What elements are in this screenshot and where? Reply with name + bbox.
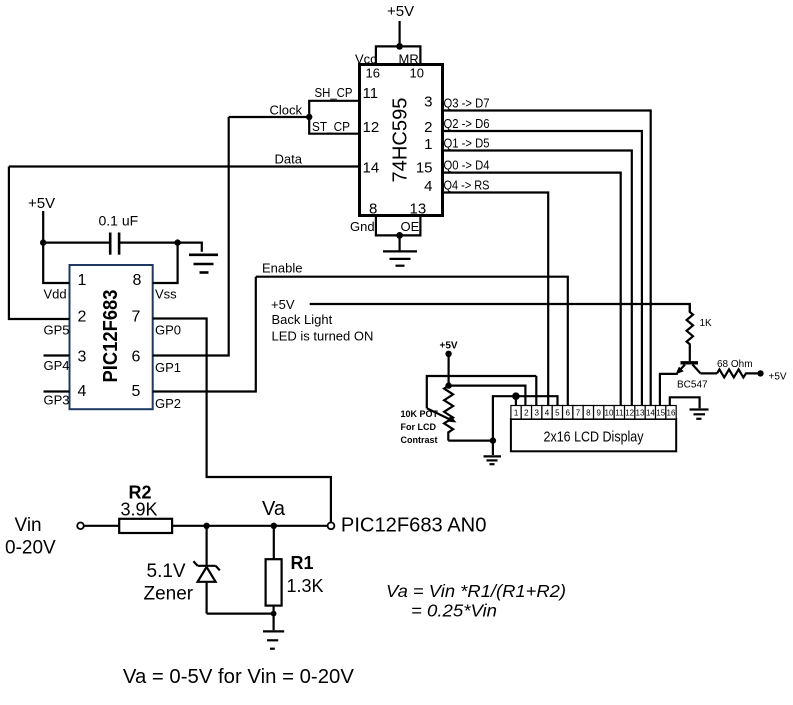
svg-text:2: 2 — [524, 409, 529, 418]
svg-text:Q1 -> D5: Q1 -> D5 — [444, 136, 490, 151]
svg-text:LED is turned ON: LED is turned ON — [272, 329, 374, 344]
svg-text:For LCD: For LCD — [401, 422, 437, 432]
svg-text:MR: MR — [399, 52, 419, 67]
svg-text:Q4 -> RS: Q4 -> RS — [444, 178, 490, 193]
wire pot bottom to ground node — [448, 440, 493, 442]
wire Vcc-MR top connector — [376, 46, 421, 64]
svg-text:13: 13 — [410, 201, 427, 218]
junction dot above LCD pin1 — [512, 392, 520, 400]
svg-text:8: 8 — [133, 272, 142, 289]
svg-text:8: 8 — [369, 201, 377, 218]
svg-text:11: 11 — [363, 85, 379, 102]
svg-text:10: 10 — [605, 409, 614, 418]
svg-text:+5V: +5V — [769, 372, 787, 383]
svg-text:1.3K: 1.3K — [287, 576, 324, 596]
svg-text:Enable: Enable — [262, 261, 302, 276]
wire cap left lead — [43, 242, 110, 244]
wire GP0 pin7 to AN0 — [153, 319, 331, 523]
svg-text:Va: Va — [262, 498, 286, 520]
junction dot MR node — [396, 43, 403, 50]
wire pot +5V riser — [448, 354, 450, 386]
wire Q2 to LCD D6 — [443, 131, 642, 406]
wire R1 to ground — [273, 606, 275, 631]
svg-text:Vdd: Vdd — [44, 287, 67, 302]
svg-text:5: 5 — [132, 383, 141, 400]
svg-text:16: 16 — [366, 66, 380, 81]
svg-text:GP0: GP0 — [155, 323, 181, 338]
svg-text:PIC12F683 AN0: PIC12F683 AN0 — [341, 515, 487, 537]
svg-text:SH_CP: SH_CP — [315, 85, 353, 100]
svg-text:3: 3 — [424, 94, 432, 111]
svg-text:0-20V: 0-20V — [5, 538, 56, 559]
svg-text:GP2: GP2 — [155, 396, 181, 411]
svg-text:16: 16 — [667, 409, 676, 418]
svg-text:Vin: Vin — [15, 515, 42, 536]
resistor R2 3.9K — [119, 519, 172, 533]
ground (R1) — [263, 631, 284, 648]
wire Gnd-OE bottom connector — [376, 216, 421, 236]
wire cap right lead to ground branch — [119, 243, 202, 252]
junction dot OE node — [396, 232, 403, 239]
LCD pin numbers 1-16 — [514, 409, 676, 418]
svg-text:GP5: GP5 — [44, 323, 70, 338]
svg-text:6: 6 — [132, 349, 141, 366]
svg-text:74HC595: 74HC595 — [390, 98, 412, 183]
svg-text:10: 10 — [410, 66, 424, 81]
wire clock to ST_CP pin12 — [309, 117, 359, 134]
svg-text:ST_CP: ST_CP — [312, 119, 350, 134]
wire GP5 pin2 to Data — [9, 167, 70, 320]
wire collector to 68 Ohm — [701, 372, 718, 374]
svg-text:= 0.25*Vin: = 0.25*Vin — [411, 601, 497, 621]
svg-text:Contrast: Contrast — [401, 435, 438, 445]
wire clock to SH_CP pin11 — [309, 101, 359, 117]
ground (capacitor) — [189, 255, 218, 273]
svg-text:+5V: +5V — [387, 3, 414, 20]
resistor 68 Ohm — [717, 369, 758, 377]
junction dot pot ground node — [490, 437, 496, 443]
svg-text:Clock: Clock — [270, 103, 303, 118]
wire Clock line — [229, 116, 310, 118]
svg-text:BC547: BC547 — [677, 380, 708, 391]
zener diode D1 5.1V — [193, 526, 219, 614]
svg-text:5: 5 — [555, 409, 560, 418]
LCD display module — [511, 419, 676, 451]
svg-text:1K: 1K — [700, 318, 713, 329]
svg-text:5.1V: 5.1V — [147, 561, 186, 582]
capacitor C1 0.1uF — [110, 233, 119, 255]
svg-text:GP3: GP3 — [44, 393, 70, 408]
svg-text:+5V: +5V — [440, 341, 458, 352]
ground (LCD right) — [690, 410, 709, 419]
svg-text:2: 2 — [424, 119, 432, 136]
potentiometer 10K body — [444, 386, 453, 441]
wire Data line pin14 — [9, 165, 360, 167]
wire GP4 pin3 stub — [44, 354, 70, 356]
svg-text:Q0 -> D4: Q0 -> D4 — [444, 158, 490, 173]
wire +5V to MR — [399, 21, 401, 46]
svg-text:Data: Data — [275, 152, 303, 167]
wire zener to R1 bottom — [207, 612, 274, 614]
wire pot top to LCD pin2 — [449, 386, 526, 406]
wire GP3 pin4 stub — [44, 390, 70, 392]
svg-text:68 Ohm: 68 Ohm — [717, 359, 753, 370]
terminal dot +5V right — [757, 370, 763, 376]
svg-text:Zener: Zener — [144, 584, 194, 605]
junction dot cap right — [174, 239, 180, 245]
svg-text:7: 7 — [132, 309, 141, 326]
svg-text:Vcc: Vcc — [355, 52, 377, 67]
svg-text:4: 4 — [78, 383, 87, 400]
svg-text:PIC12F683: PIC12F683 — [100, 290, 122, 383]
svg-text:1: 1 — [424, 136, 432, 153]
ground (below 74HC595) — [383, 251, 417, 265]
junction dot pot top — [445, 382, 451, 388]
wire pot wiper to LCD pin3 — [427, 376, 537, 408]
wire backlight +5V line to 1K — [310, 304, 690, 312]
wire Q1 to LCD D5 — [443, 151, 632, 406]
svg-text:Back Light: Back Light — [272, 312, 333, 327]
wire emitter to LCD pin15 — [660, 374, 678, 406]
svg-text:R1: R1 — [291, 553, 314, 573]
svg-text:3: 3 — [78, 349, 87, 366]
svg-text:Q3 -> D7: Q3 -> D7 — [444, 96, 490, 111]
wire Q4 to LCD RS — [443, 193, 549, 406]
svg-text:4: 4 — [545, 409, 550, 418]
svg-text:15: 15 — [656, 409, 665, 418]
svg-text:Va = 0-5V for Vin = 0-20V: Va = 0-5V for Vin = 0-20V — [123, 666, 355, 688]
wire R2 to AN0 terminal — [172, 525, 327, 527]
svg-text:OE: OE — [401, 219, 420, 234]
svg-text:14: 14 — [646, 409, 655, 418]
svg-text:Vss: Vss — [155, 287, 177, 302]
svg-text:3: 3 — [534, 409, 539, 418]
pot wiper arrow — [427, 408, 457, 422]
junction dot zener node — [203, 523, 209, 529]
wire Q3 to LCD D7 — [443, 111, 651, 406]
terminal dot pot +5V — [445, 351, 451, 357]
svg-text:GP1: GP1 — [155, 360, 181, 375]
wire Vss pin8 riser — [153, 243, 178, 283]
LCD pin header boxes 1-16 — [511, 406, 676, 420]
transistor Q1 BC547 — [676, 363, 701, 375]
svg-text:8: 8 — [586, 409, 591, 418]
wire GP2 pin5 to Enable — [153, 277, 256, 392]
svg-text:7: 7 — [576, 409, 581, 418]
wire LCD pin16 to ground — [670, 397, 700, 408]
svg-text:12: 12 — [363, 119, 380, 136]
wire Enable line to LCD pin6 — [256, 277, 568, 406]
terminal circle Vin — [77, 523, 84, 530]
svg-text:13: 13 — [636, 409, 645, 418]
svg-text:11: 11 — [615, 409, 624, 418]
svg-text:9: 9 — [596, 409, 601, 418]
svg-text:1: 1 — [514, 409, 519, 418]
svg-text:2: 2 — [78, 309, 87, 326]
svg-text:+5V: +5V — [28, 195, 55, 212]
wire LCD pin1 stub — [515, 396, 517, 405]
junction dot clock node — [306, 114, 312, 120]
wire Vin to R2 — [84, 525, 119, 527]
IC U1 PIC12F683 body — [70, 265, 153, 409]
svg-text:15: 15 — [416, 160, 433, 177]
junction dot R1 bottom — [271, 611, 277, 617]
terminal circle AN0 — [328, 522, 335, 529]
svg-text:GP4: GP4 — [44, 358, 70, 373]
wire OE node to ground — [399, 235, 401, 250]
wire ground node drop — [492, 441, 494, 455]
wire Q0 to LCD D4 — [443, 173, 621, 406]
svg-text:2x16 LCD Display: 2x16 LCD Display — [544, 429, 644, 446]
svg-text:0.1 uF: 0.1 uF — [99, 213, 139, 229]
junction dot cap left — [40, 239, 46, 245]
svg-text:10K POT: 10K POT — [401, 409, 439, 419]
ground (pot) — [484, 456, 502, 464]
svg-text:14: 14 — [363, 160, 380, 177]
IC U2 74HC595 body — [360, 65, 443, 216]
wire GP1 pin6 to Clock riser — [153, 117, 229, 356]
junction dot Va node — [271, 523, 277, 529]
wire ground node riser to pin1/pin5 rail — [493, 396, 558, 440]
svg-text:3.9K: 3.9K — [121, 500, 158, 520]
svg-text:+5V: +5V — [271, 297, 295, 312]
svg-text:Va = Vin *R1/(R1+R2): Va = Vin *R1/(R1+R2) — [386, 581, 566, 601]
svg-text:Q2 -> D6: Q2 -> D6 — [444, 116, 490, 131]
resistor R1 1.3K — [266, 559, 282, 605]
resistor 1K — [687, 304, 693, 361]
svg-text:4: 4 — [424, 178, 432, 195]
wire Va node to R1 — [273, 526, 275, 559]
wire +5V to Vdd pin1 — [43, 211, 69, 283]
svg-text:1: 1 — [78, 272, 87, 289]
svg-text:12: 12 — [625, 409, 634, 418]
svg-text:Gnd: Gnd — [350, 219, 375, 234]
svg-text:6: 6 — [565, 409, 570, 418]
